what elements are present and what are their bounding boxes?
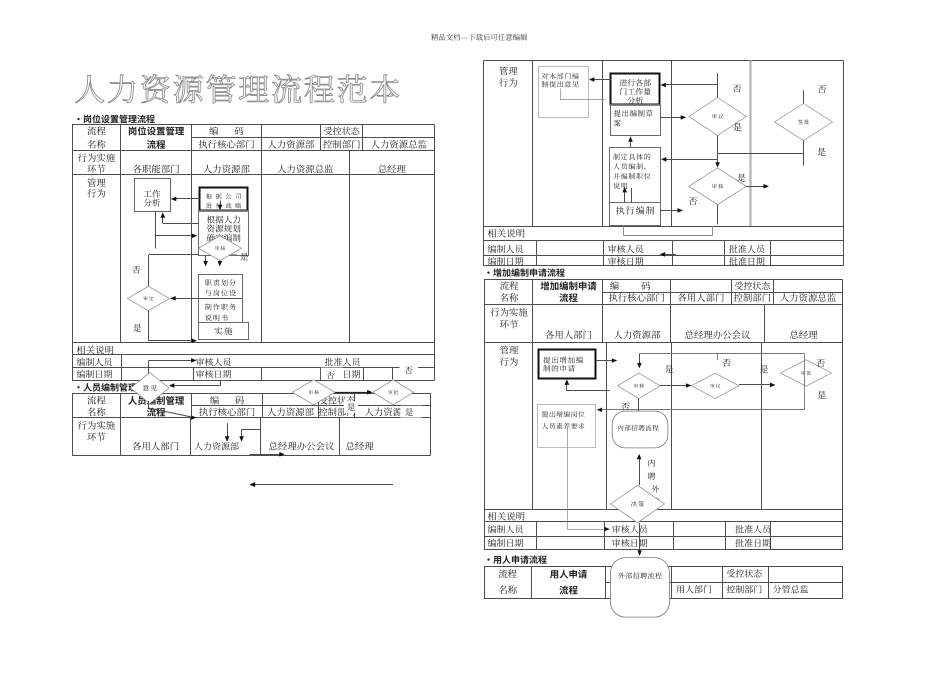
heading 增加编制申请流程 <box>487 268 564 277</box>
heading 人员编制管理流程 <box>77 383 154 392</box>
label 是 (审核2) <box>737 174 745 182</box>
table1 cell texts <box>77 126 427 378</box>
arrow down inside 根据公司 box <box>218 201 223 211</box>
labels 内聘外聘 <box>648 459 659 505</box>
title 人力资源管理流程范本 (outline) <box>75 74 399 103</box>
wire 审核3-no loop back <box>565 379 639 411</box>
diamond 审议 (F3) <box>692 373 739 398</box>
arrow 执行编制 right <box>660 208 683 213</box>
table2 grid <box>72 393 431 455</box>
table4 grid <box>484 280 843 550</box>
thick box 根据公司进行战略 <box>200 188 248 211</box>
wire 审批2 vertical <box>804 354 806 410</box>
arrow right on table2 row2 bottom <box>250 452 285 457</box>
label 是 (T1 审核) <box>232 253 249 261</box>
heading 岗位设置管理流程 <box>77 115 154 124</box>
wire 工作分析 loop down <box>156 211 198 248</box>
arrow up into 草案 bottom <box>628 136 633 148</box>
wire 审批L yes path <box>412 393 431 395</box>
label 否 (审核3) <box>621 402 629 410</box>
arrow down 1 into 职责划分 <box>203 255 208 266</box>
arrow into 审定 from boxes <box>170 296 241 301</box>
arrow 审议2->审批2 <box>739 383 775 388</box>
arrow 审议-no back to 工作量分析 <box>660 83 717 88</box>
table2 cell texts <box>78 396 421 451</box>
table3 grid <box>484 60 844 265</box>
wire 审议 top stub <box>717 73 719 97</box>
wire 签批 bottom stub <box>803 141 805 166</box>
label 否 (审议) <box>733 84 741 92</box>
table4 cell texts <box>488 281 836 547</box>
box 根据人力资源规划确定编制 <box>199 211 249 256</box>
arrow up into 内部招聘流程 <box>637 454 642 486</box>
wire inside 对本部门 box <box>560 89 606 100</box>
arrow 审核3->审议2 <box>660 383 691 388</box>
label 是 (审核3) <box>665 365 673 373</box>
label 是 (审议) <box>733 123 741 131</box>
box 制作职务说明书 <box>199 299 243 323</box>
arrow 提出增加->right <box>596 358 617 363</box>
thick box 进行各部门工作量分析 <box>611 74 660 105</box>
arrow 审核 no-branch left <box>149 255 199 287</box>
heading 用人申请流程 <box>487 555 546 564</box>
label 否 (审核2) <box>689 197 697 205</box>
arrow down 1 (table2 row2) <box>225 423 230 442</box>
label 是 (签批) <box>817 148 825 156</box>
box 提出编制草案 <box>611 105 661 136</box>
wire 决策 bottom <box>639 523 641 551</box>
arrow down 2 (table2 row2) <box>239 429 260 442</box>
arrow down 2 into 职责划分 <box>218 261 223 267</box>
diamond 决策 <box>611 485 665 522</box>
arrow down into 审核3 <box>637 354 642 369</box>
thick arrow 审核L->审批L <box>335 390 373 395</box>
arrow into 意见 right vertex <box>169 381 221 388</box>
table3 cell texts <box>488 67 765 266</box>
box 执行编制 <box>610 203 661 226</box>
header note <box>431 34 527 41</box>
wire 审批L no path <box>393 354 435 379</box>
arrow left in 编制日期 row <box>660 252 676 257</box>
label 否 white (right) <box>400 364 419 376</box>
rounded box 外部招聘流程 <box>611 558 670 618</box>
box 制定具体的人员编制并编制职位说明 <box>610 148 661 203</box>
rounded box 内部招聘流程 <box>612 411 668 448</box>
wire 审定-是 path to bottom <box>149 311 198 343</box>
wire 根据人力->工作分析 <box>161 212 199 223</box>
arrow long return into 提出增编岗位 <box>597 408 805 413</box>
wire loop from 素养要求 box down <box>567 428 610 532</box>
arrow back into 制定具体 <box>661 157 718 162</box>
diamond 意见 <box>131 373 170 404</box>
wire 审议-bottom junction <box>718 136 804 163</box>
wire 审核2 bottom <box>717 205 719 225</box>
box 工作分析 <box>135 179 171 212</box>
label 是 (审批2) <box>818 391 826 399</box>
arrow left (below table2) <box>249 482 393 487</box>
wire top return line (F3) <box>639 354 804 361</box>
arrow into 外部招聘流程 <box>637 550 642 556</box>
box 实施 <box>199 323 249 340</box>
arrow 进行各部门->对本部门 <box>589 77 611 82</box>
wire U-shape in 相关说明 row <box>624 226 713 236</box>
diamond 审核 (T1) <box>199 236 242 261</box>
diamond 审核 (F3) <box>618 373 660 398</box>
label 是 (T1 second) <box>133 324 141 332</box>
diamond 审批L <box>373 380 414 405</box>
box 职责划分与岗位设 <box>199 275 243 299</box>
label 是 white (right2) <box>401 406 422 418</box>
wire+arrow inside 制定具体 box <box>622 187 631 203</box>
thick box 提出增加编制的申请 <box>539 350 596 379</box>
arrow into 审核2 top <box>715 162 720 168</box>
table5 grid <box>484 566 843 599</box>
wire 签批 top stub <box>803 90 805 103</box>
diamond 审核 (F2) <box>689 168 746 205</box>
diamond 审议 (F2) <box>689 98 746 136</box>
table5 cell texts <box>499 569 809 594</box>
label 是 white (over 受控状态) <box>344 401 359 412</box>
label 否 (审批2) <box>816 359 824 367</box>
wire 意见 bottom diagonal <box>149 401 197 420</box>
box 提出增编岗位人员素养要求 <box>538 405 596 448</box>
diamond 签批 (F2) <box>775 104 833 141</box>
diamond 审定 (T1 second) <box>127 286 169 310</box>
label 否 (T1) <box>132 266 140 274</box>
label 是 (审议2) <box>760 365 768 373</box>
label 否 white (over 批准日期) <box>321 368 343 380</box>
wire loop in 编制人员 row <box>149 358 197 378</box>
arrow 提出编制草案->审议 <box>661 115 687 120</box>
label 否 (审议2) <box>722 358 730 366</box>
arrow 审核2 right <box>746 184 769 189</box>
arrow 根据公司->工作分析 <box>171 197 200 202</box>
table1 grid <box>72 125 435 381</box>
diamond 审核L <box>292 380 335 405</box>
label 否 (签批) <box>818 85 826 93</box>
box 对本部门编制提出意见 <box>539 67 589 118</box>
diamond 审批 (F3) <box>781 360 832 386</box>
